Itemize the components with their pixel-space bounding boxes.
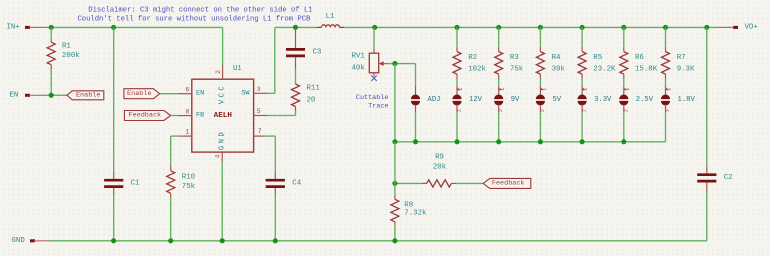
svg-text:L1: L1 [326,13,335,21]
junction EN/R1 [49,93,54,98]
svg-text:R6: R6 [635,54,644,62]
svg-text:R9: R9 [435,153,444,161]
junction rail/wiper [392,139,397,144]
svg-text:VCC: VCC [218,84,226,104]
junction feedback rail [413,139,418,144]
resistor R11 [292,69,321,116]
solder jumper (2.5V) [619,86,654,142]
global label Enable (left) [67,91,104,100]
svg-text:R3: R3 [510,54,519,62]
resistor R4 [536,27,565,85]
solder jumper (9V) [494,86,520,142]
junction feedback rail [580,139,585,144]
pin 3 (SW) [254,86,268,93]
svg-text:GND: GND [218,130,226,150]
port EN [10,91,48,99]
global label Feedback (divider) [483,178,531,188]
svg-text:75k: 75k [182,183,196,191]
port IN+ [7,24,48,32]
svg-text:R8: R8 [404,201,413,209]
resistor R2 [453,27,487,85]
solder jumper (12V) [452,86,482,142]
potentiometer RV1 [352,27,388,76]
wire GND rail [50,240,707,242]
svg-text:6: 6 [186,86,190,93]
resistor R6 [620,27,658,85]
svg-text:R5: R5 [593,54,602,62]
resistor R5 [578,27,616,85]
svg-text:IN+: IN+ [7,24,21,32]
wire pin7 to C4 [264,136,275,172]
junction VO+/C2 [704,25,709,30]
svg-text:R2: R2 [468,54,477,62]
junction VO+/R7 [663,25,668,30]
svg-text:2: 2 [215,70,222,74]
wire pin4 to GND rail [221,162,223,241]
solder jumper (1.8V) [661,86,696,142]
wire VO+ rail [344,26,717,28]
junction IN+/R1 [49,25,54,30]
junction SW/C3 [293,25,298,30]
junction feedback rail [454,139,459,144]
svg-text:12V: 12V [469,96,483,104]
junction GND/R8 [392,238,397,243]
svg-text:1.8V: 1.8V [678,96,696,104]
junction wiper [392,61,397,66]
svg-text:EN: EN [196,90,204,98]
junction VO+/R5 [580,25,585,30]
port VO+ [717,24,758,32]
resistor R3 [495,27,524,85]
wire pin5 to R11 [268,115,296,117]
pin 7 [254,128,264,136]
wire pin1 to R10 [171,136,178,166]
resistor R7 [662,27,696,85]
solder jumper (3.3V) [578,86,613,142]
svg-text:20: 20 [307,97,316,105]
svg-text:5V: 5V [552,96,561,104]
wire EN to label [46,94,67,96]
svg-text:4: 4 [215,154,222,158]
svg-text:5: 5 [257,108,261,115]
svg-text:20k: 20k [433,163,447,171]
note disclaimer text line 1 [88,7,312,15]
resistor R10 [167,166,196,241]
svg-text:U1: U1 [233,65,242,73]
capacitor C2 [697,167,732,241]
capacitor C1 [104,27,140,240]
pin 2 (VCC) [215,66,223,80]
svg-text:EN: EN [10,91,19,99]
wire SW rail [275,26,318,28]
wire RV1 wiper [387,63,416,65]
solder jumper (5V) [536,86,562,142]
pin 5 [254,108,268,115]
junction VO+/R4 [538,25,543,30]
pin 6 (EN) [178,86,192,93]
wire VO+ to C2 [706,27,708,166]
svg-text:Enable: Enable [76,92,100,100]
svg-text:Cuttable: Cuttable [356,94,389,102]
port GND [12,237,52,245]
junction VO+/R6 [621,25,626,30]
svg-text:SW: SW [241,89,250,97]
wire SW riser [268,27,275,93]
svg-text:C1: C1 [131,179,140,187]
svg-text:AELH: AELH [214,112,233,120]
svg-text:R11: R11 [307,85,321,93]
svg-text:1: 1 [186,128,190,135]
svg-text:9V: 9V [511,96,520,104]
solder jumper JP1 (ADJ) [411,86,441,142]
capacitor C3 [286,27,321,68]
svg-text:R10: R10 [182,173,195,181]
no-connect X on RV1 [371,75,377,81]
svg-text:Disclaimer: C3 might connect o: Disclaimer: C3 might connect on the othe… [88,7,312,15]
svg-text:23.2K: 23.2K [593,65,616,73]
svg-text:C2: C2 [724,174,733,182]
wire wiper to ADJ jumper [415,64,417,86]
wire feedback rail [395,141,666,143]
svg-text:R1: R1 [62,42,71,50]
pin 4 (GND) [215,152,223,162]
svg-text:R7: R7 [677,54,686,62]
global label Enable (to pin 6) [124,89,178,99]
global label Feedback (to pin 8) [124,111,177,121]
junction GND/C4 [273,238,278,243]
svg-text:GND: GND [12,237,26,245]
svg-text:7.32k: 7.32k [404,210,427,218]
svg-text:9.3K: 9.3K [677,65,695,73]
svg-text:Couldn't tell for sure without: Couldn't tell for sure without unsolderi… [77,15,311,23]
junction GND/R10 [168,238,173,243]
junction feedback rail [496,139,501,144]
resistor R1 [47,27,80,95]
resistor R8 [391,195,427,241]
svg-text:ADJ: ADJ [428,96,441,104]
svg-text:VO+: VO+ [745,24,759,32]
wire IN+ rail [46,26,223,28]
svg-text:Trace: Trace [368,103,388,111]
svg-text:Enable: Enable [127,90,151,98]
svg-text:15.8K: 15.8K [635,65,658,73]
wire VCC riser [222,27,224,66]
svg-text:200k: 200k [62,52,80,60]
svg-text:C4: C4 [292,179,301,187]
svg-text:3: 3 [257,86,261,93]
resistor R9 [422,153,484,187]
junction IN+/C1 [111,25,116,30]
svg-text:Feedback: Feedback [128,112,161,120]
svg-text:Feedback: Feedback [492,180,525,188]
svg-text:C3: C3 [313,49,322,57]
svg-text:40k: 40k [352,65,366,73]
svg-text:102k: 102k [468,65,486,73]
wire wiper down to feedback rail [394,64,396,142]
svg-text:7: 7 [258,128,262,135]
note disclaimer text line 2 [77,15,311,23]
junction VO+/R3 [496,25,501,30]
capacitor C4 [266,172,302,241]
svg-text:2.5V: 2.5V [636,96,654,104]
svg-text:FB: FB [196,112,204,120]
wire to R9 [395,182,422,184]
junction R9 node [392,181,397,186]
junction GND/C1 [111,238,116,243]
svg-text:RV1: RV1 [352,53,366,61]
junction feedback rail [621,139,626,144]
inductor L1 [317,13,344,27]
pin 1 [178,128,192,136]
pin 8 (FB) [178,108,192,115]
wire rail to R8 [394,142,396,195]
junction VO+/R2 [454,25,459,30]
junction feedback rail [538,139,543,144]
svg-text:75k: 75k [510,65,524,73]
junction GND/U1.4 [220,238,225,243]
svg-text:R4: R4 [552,54,561,62]
note Cuttable Trace [356,94,389,111]
junction VO+/RV1 [372,25,377,30]
svg-text:3.3V: 3.3V [594,96,612,104]
svg-text:8: 8 [186,108,190,115]
op-amp U1 body [192,65,254,152]
svg-text:39k: 39k [552,65,566,73]
